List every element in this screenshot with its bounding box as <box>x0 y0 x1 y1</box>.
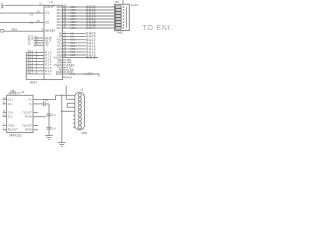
connector J1 pin box 4 <box>115 15 121 17</box>
svg-text:BALE: BALE <box>86 56 96 60</box>
svg-text:P1.7: P1.7 <box>45 72 52 76</box>
capacitor C3 in chain <box>46 114 51 116</box>
wire U2 R1IN <box>33 116 46 118</box>
wire A14 <box>63 51 86 53</box>
wire P1.7 <box>26 73 44 75</box>
capacitor C4 in chain <box>46 127 51 129</box>
connector J2 pin circle 4 <box>78 106 81 109</box>
wire spare stub <box>63 76 67 78</box>
connector J2 pin circle 2 <box>78 98 81 101</box>
svg-text:TO ENG: TO ENG <box>143 25 171 32</box>
svg-text:X1: X1 <box>30 12 34 16</box>
svg-text:JP1: JP1 <box>114 0 119 4</box>
wire U2 right stub T1OUT <box>33 111 38 113</box>
wire U2 left pin 4 <box>3 116 7 118</box>
svg-text:C2-: C2- <box>8 115 13 119</box>
wire J2 stub row6 <box>73 114 75 116</box>
wire P1.5 <box>26 67 44 69</box>
svg-text:V-: V- <box>29 102 32 106</box>
connector J2 pin circle 5 <box>78 110 81 113</box>
svg-text:TAB1: TAB1 <box>116 31 123 35</box>
wire A10 <box>63 39 86 41</box>
wire P1.6 <box>26 70 44 72</box>
wire J1 top pin <box>122 0 124 4</box>
capacitor C1 above MAX232 <box>10 90 16 95</box>
wire X2 net <box>0 12 44 14</box>
connector J1 pin dot 1 <box>123 6 125 8</box>
connector J1 pin box 6 <box>115 21 121 23</box>
svg-text:AuxInt: AuxInt <box>131 3 139 7</box>
wire control stub 2 <box>63 62 67 64</box>
junction dot DB9 branch <box>61 111 63 113</box>
wire ground rail vertical at DB9 <box>61 95 63 142</box>
svg-text:LED: LED <box>86 72 94 76</box>
wire A12 <box>63 45 86 47</box>
wire P1.3 <box>26 61 44 63</box>
svg-text:+ C2: + C2 <box>43 99 49 102</box>
connector J1 pin box 1 <box>115 6 121 8</box>
wire U2 right stub 5 <box>33 125 38 127</box>
wire P1.4 <box>26 64 44 66</box>
wire under CPU bottom-left <box>26 79 44 81</box>
svg-text:X2: X2 <box>30 20 34 24</box>
connector J1 pin dot 5 <box>123 18 125 20</box>
svg-text:AD7: AD7 <box>70 26 76 30</box>
junction dot jog tap <box>61 95 63 97</box>
wire J2 stub row8 <box>73 122 75 124</box>
wire AD7 bus <box>63 27 115 29</box>
wire J2 stub row7 <box>73 118 75 120</box>
wire RESET net <box>4 30 44 32</box>
connector J2 pin circle 1 <box>78 94 81 97</box>
wire A8 <box>63 33 86 35</box>
wire INT/T pin row 1 <box>34 37 45 39</box>
svg-text:T1: T1 <box>45 43 49 47</box>
connector J2 pin circle 3 <box>78 102 81 105</box>
svg-text:R1IN: R1IN <box>25 115 32 119</box>
wire U2 left pin 2 <box>3 103 7 105</box>
wire AD4 bus <box>63 18 115 20</box>
wire serial vertical to DB9 <box>66 86 75 100</box>
svg-text:DB9: DB9 <box>82 131 88 135</box>
wire ALE long <box>63 57 99 59</box>
wire INT/T pin row 3 <box>34 42 45 44</box>
connector J1 pin box 8 <box>115 27 121 29</box>
ground under DB9 rail <box>58 142 66 146</box>
wire cap chain vertical <box>48 104 50 135</box>
connector J1 pin dot 8 <box>123 27 125 29</box>
wire control stub 4 <box>63 67 67 69</box>
wire P1.1 <box>26 55 44 57</box>
wire U2 right stub 6 <box>33 129 38 131</box>
connector J2 pin circle 9 <box>78 126 81 129</box>
wire P1.2 <box>26 58 44 60</box>
svg-text:J2: J2 <box>80 87 83 91</box>
svg-text:T1: T1 <box>28 42 32 46</box>
svg-text:R1OUT: R1OUT <box>8 128 18 132</box>
connector J1 pin dot 6 <box>123 21 125 23</box>
wire A11 <box>63 42 86 44</box>
svg-text:A15: A15 <box>70 53 76 57</box>
wire U2 left pin 6 <box>3 129 7 131</box>
svg-text:X2: X2 <box>45 21 49 25</box>
svg-text:T=0: T=0 <box>70 72 75 76</box>
svg-text:RXD: RXD <box>67 75 73 79</box>
wire RXD serial long <box>63 74 99 77</box>
svg-text:RES: RES <box>12 27 18 31</box>
connector J1 pin box 7 <box>115 24 121 26</box>
connector J2 pin circle 7 <box>78 118 81 121</box>
wire U2 left pin 3 <box>3 111 7 113</box>
wire A13 <box>63 48 86 50</box>
wire A9 <box>63 36 86 38</box>
svg-text:1uF: 1uF <box>21 91 26 94</box>
svg-text:R2IN: R2IN <box>25 128 32 132</box>
wire AD0 bus <box>63 6 115 8</box>
wire AD5 bus <box>63 21 115 23</box>
connector J1 pin dot 7 <box>123 24 125 26</box>
wire control stub 3 <box>63 64 67 66</box>
wire P1 left bus vertical <box>25 52 27 79</box>
connector J1 pin dot 3 <box>123 12 125 14</box>
wire U2 left pin 1 <box>3 99 7 101</box>
capacitor C2 horizontal <box>43 102 49 107</box>
wire AD3 bus <box>63 15 115 17</box>
connector J1 pin dot 4 <box>123 15 125 17</box>
wire EA/VP net <box>0 22 44 24</box>
wire AD6 bus <box>63 24 115 26</box>
wire A15 <box>63 54 86 56</box>
ground below capacitor chain <box>45 136 53 140</box>
svg-text:C3: C3 <box>52 114 56 117</box>
crystal X1 stub symbol <box>1 5 4 8</box>
wire RXD stub <box>63 71 67 73</box>
IC U2 MAX232 box <box>7 95 33 132</box>
wire control stub 1 <box>63 59 67 61</box>
wire DB9 jumper loop <box>67 103 75 107</box>
connector J1 pin dot 2 <box>123 9 125 11</box>
wire DB9 pin branch <box>62 110 75 112</box>
svg-text:C1-: C1- <box>8 102 13 106</box>
connector J1 pin box 2 <box>115 9 121 11</box>
svg-text:RXD: RXD <box>56 72 62 76</box>
wire U2 T2OUT jog to J2 <box>33 95 75 99</box>
svg-text:P1.7: P1.7 <box>28 71 34 75</box>
connector J2 DB9 outline <box>75 92 85 130</box>
connector J1 pin box 3 <box>115 12 121 14</box>
svg-text:EA/VP: EA/VP <box>45 5 54 9</box>
svg-text:C4: C4 <box>52 127 56 130</box>
svg-text:X1: X1 <box>45 11 49 15</box>
connector J1 inner bus line <box>125 7 127 28</box>
op-amp U1 8031 CPU box <box>44 5 63 79</box>
svg-text:AD7: AD7 <box>56 26 62 30</box>
connector J1 pin box 5 <box>115 18 121 20</box>
connector J2 pin circle 6 <box>78 114 81 117</box>
connector J2 pin circle 8 <box>78 122 81 125</box>
wire INT/T pin row 2 <box>34 39 45 41</box>
wire AD2 bus <box>63 12 115 14</box>
svg-text:BD07: BD07 <box>86 26 96 30</box>
svg-text:8031: 8031 <box>30 81 37 85</box>
svg-text:RESET: RESET <box>45 29 56 33</box>
wire TXD stub <box>63 69 69 71</box>
wire P1.0 <box>26 51 44 53</box>
wire AD1 bus <box>63 9 115 11</box>
connector J1 outline <box>114 4 129 30</box>
wire U2 V+ to capacitor C2 <box>33 103 43 105</box>
capacitor reset symbol <box>1 29 4 32</box>
wire INT/T pin row 4 <box>34 44 45 46</box>
wire J2 stub row9 <box>73 126 75 128</box>
svg-text:U1: U1 <box>50 0 54 4</box>
wire X1 net <box>5 4 45 6</box>
svg-text:MAX232: MAX232 <box>10 134 22 138</box>
wire U2 left pin 5 <box>3 125 7 127</box>
